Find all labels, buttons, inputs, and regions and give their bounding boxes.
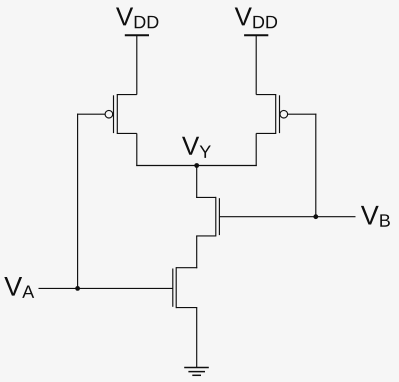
M1 drain lead (bottom) [117, 132, 137, 134]
M4 channel line [175, 267, 177, 308]
power supply bar VDD left [125, 34, 149, 36]
M1 channel line [116, 94, 118, 134]
wire M3 source down to M4 drain [196, 236, 198, 268]
wire VB branch up to M2 bubble level [315, 114, 317, 217]
junction dot node VY [194, 163, 199, 168]
wire VDD-right bar to M2 source [255, 35, 257, 94]
M1 source lead (top) [117, 94, 137, 96]
M3 source lead (bottom) [196, 235, 216, 237]
label VY [182, 137, 211, 158]
M3 gate line [218, 198, 220, 235]
M2 drain lead (bottom) [256, 132, 276, 134]
nmos M4 (bottom pull-down, gate left) [173, 267, 197, 308]
wire VDD-left bar to M1 source [136, 35, 138, 94]
M2 source lead (top) [256, 94, 276, 96]
M3 channel line [215, 197, 217, 237]
M3 drain lead (top) [196, 196, 216, 198]
M2 channel line [275, 94, 277, 134]
M4 drain lead (top) [176, 267, 197, 269]
wire VY down to M3 drain [196, 166, 198, 198]
wire M3 gate to VB [219, 216, 355, 218]
nmos M3 (top pull-down, gate right) [196, 197, 219, 237]
ground bar 2 [188, 371, 205, 373]
ground bar 3 [192, 374, 201, 376]
M1 gate bubble [105, 110, 113, 118]
label VDD (left supply) [116, 8, 158, 29]
M4 source lead (bottom) [176, 307, 197, 309]
wire M2 drain down to VY rail [255, 133, 257, 166]
wire M1 bubble to VA vertical [77, 113, 105, 115]
M2 gate line [279, 95, 281, 133]
label VB [361, 206, 390, 227]
wire M4 source down to ground [196, 308, 198, 368]
M1 gate line [113, 95, 115, 133]
M4 gate line [172, 269, 174, 307]
wire VA branch up to M1 bubble level [77, 114, 79, 289]
M2 gate bubble [280, 110, 288, 118]
ground bar 1 [184, 367, 209, 369]
wire M2 bubble to VB vertical [288, 113, 317, 115]
junction dot node VA branch [75, 286, 80, 291]
pmos M1 (left pull-up) [105, 94, 137, 134]
node VY output rail [136, 165, 257, 167]
ground symbol [184, 368, 209, 376]
pmos M2 (right pull-up, mirrored) [256, 94, 287, 134]
wire M1 drain down to VY rail [136, 133, 138, 166]
power supply bar VDD right [244, 34, 268, 36]
wire M4 gate to VA [39, 287, 173, 289]
label VA [4, 277, 34, 298]
junction dot node VB branch [313, 214, 318, 219]
label VDD (right supply) [235, 8, 277, 29]
